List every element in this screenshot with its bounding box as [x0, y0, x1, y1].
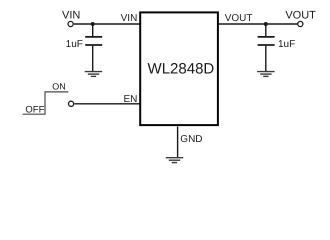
node VIN [62, 9, 80, 21]
pin EN [123, 94, 137, 105]
ground (right, below C2) [257, 72, 275, 77]
terminal VOUT [298, 21, 303, 26]
svg-text:1uF: 1uF [66, 39, 83, 50]
capacitor C1 [85, 37, 102, 45]
svg-text:GND: GND [180, 134, 202, 145]
terminal EN [69, 101, 74, 106]
wire IC GND to ground [177, 127, 179, 158]
op IC U1 WL2848D [140, 12, 218, 125]
value 1uF (C2) [278, 39, 295, 50]
label ON [52, 81, 66, 91]
label OFF [25, 104, 44, 115]
wire IC VOUT to output terminal [218, 23, 298, 25]
terminal VIN [68, 21, 73, 26]
wire junction to C1 top [92, 24, 94, 36]
wire EN to IC [74, 103, 140, 105]
svg-text:WL2848D: WL2848D [148, 60, 215, 77]
junction node VIN/C1 [91, 22, 95, 26]
pin GND [180, 134, 202, 145]
svg-text:EN: EN [123, 94, 137, 105]
switch ON/OFF step symbol [23, 92, 69, 114]
wire junction to C2 top [265, 24, 267, 36]
junction node VOUT/C2 [264, 22, 268, 26]
pin VIN [121, 13, 138, 24]
svg-text:VOUT: VOUT [225, 13, 253, 24]
svg-text:VOUT: VOUT [285, 9, 316, 21]
node VOUT [285, 9, 316, 21]
svg-text:1uF: 1uF [278, 39, 295, 50]
wire C1 bottom to ground [92, 46, 94, 72]
capacitor C2 [258, 37, 275, 45]
ground (bottom, GND pin) [166, 158, 184, 163]
ground (left, below C1) [85, 72, 103, 77]
svg-text:ON: ON [52, 81, 66, 91]
svg-text:VIN: VIN [121, 13, 138, 24]
svg-text:OFF: OFF [25, 104, 44, 115]
wire C2 bottom to ground [265, 46, 267, 72]
wire VIN input to IC [74, 23, 140, 25]
svg-text:VIN: VIN [62, 9, 80, 21]
value 1uF (C1) [66, 39, 83, 50]
pin VOUT [225, 13, 253, 24]
